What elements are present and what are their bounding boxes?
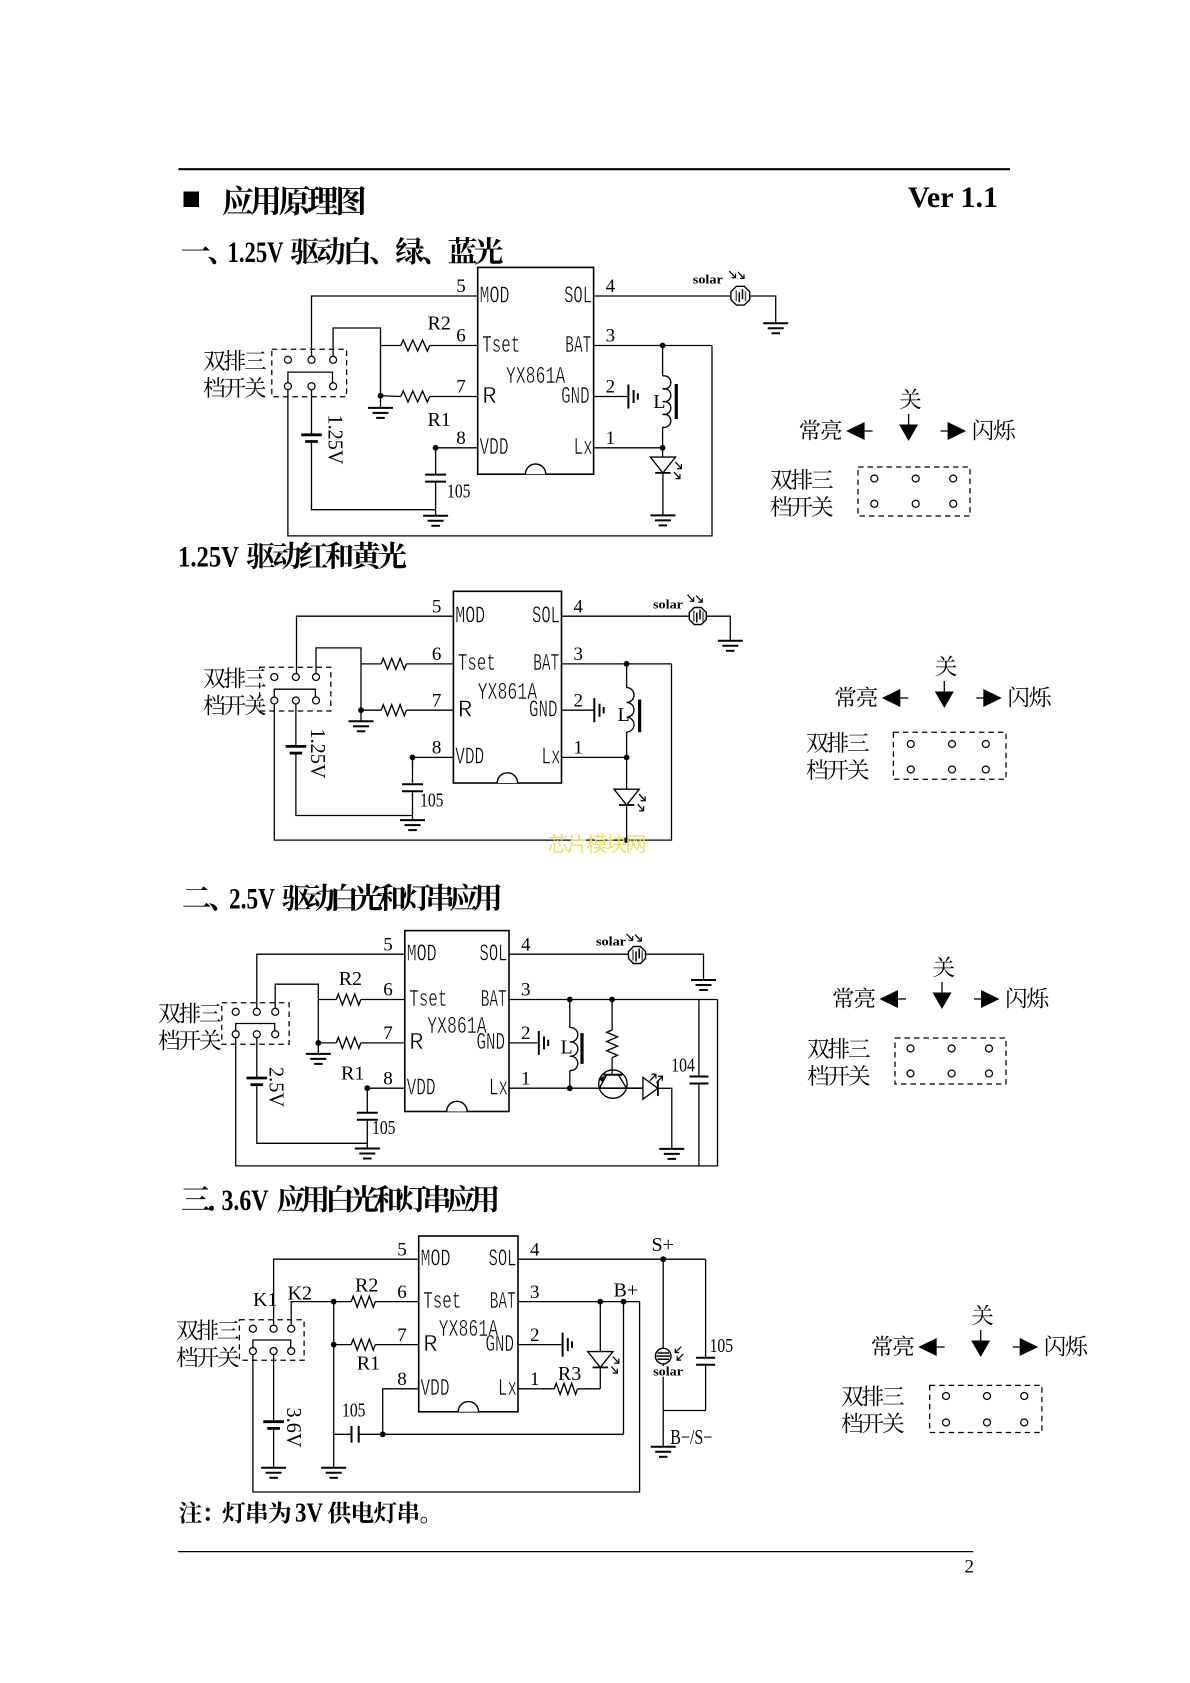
IC pin-1 orientation notch bbox=[447, 1101, 467, 1111]
wire right arrow tail bbox=[976, 697, 984, 699]
wire GND pin2 bbox=[594, 396, 628, 398]
wire MOD pin5 to switch (c4) bbox=[274, 1259, 419, 1325]
wire battery - to C1 ground node bbox=[312, 443, 436, 510]
note: light string is 3V powered bbox=[179, 1501, 210, 1523]
label: double-row three-position switch bbox=[204, 350, 266, 371]
wire BAT to inductor bbox=[662, 346, 664, 377]
wire R2 to Tset pin6 bbox=[430, 345, 478, 347]
IC pin-1 orientation notch bbox=[497, 773, 517, 783]
label battery voltage 3.6V (c4) bbox=[282, 1408, 306, 1448]
transistor Q1 (light-string driver) bbox=[599, 1070, 627, 1098]
svg-text:VDD: VDD bbox=[480, 435, 509, 462]
wire LED cathode to ground (c3) bbox=[658, 1088, 672, 1148]
wire stem down-arrow bbox=[980, 1330, 982, 1341]
label solar (c4) bbox=[653, 1366, 693, 1377]
wire VDD pin8 net (c3) bbox=[367, 1087, 405, 1089]
junction S+ node bbox=[660, 1256, 666, 1262]
wire VDD pin8 net bbox=[436, 447, 478, 449]
arrowhead down (off position) bbox=[899, 425, 918, 442]
svg-text:Tset: Tset bbox=[482, 333, 520, 360]
svg-text:Tset: Tset bbox=[423, 1289, 461, 1316]
section 2 heading bbox=[183, 886, 217, 911]
light arrow into solar (c4) 2 bbox=[677, 1354, 683, 1360]
resistor R2 bbox=[401, 340, 430, 351]
svg-text:YX861A: YX861A bbox=[506, 364, 566, 391]
capacitor C1 105 bbox=[425, 475, 446, 482]
resistor R2 (c3) bbox=[336, 994, 361, 1005]
label: double-row three-position switch (mode diagram 1) bbox=[771, 469, 833, 490]
resistor R1 (c4) bbox=[351, 1339, 375, 1350]
junction node (c2) bbox=[358, 707, 364, 713]
svg-text:2.5V: 2.5V bbox=[265, 1067, 289, 1107]
wire MOD pin5 to switch (c2) bbox=[297, 616, 454, 673]
wire capacitor down (c4) bbox=[705, 1365, 707, 1411]
wire battery return loop (c4) bbox=[253, 1302, 640, 1492]
wire VDD node to BAT branch (c4) bbox=[383, 1433, 624, 1435]
svg-text:1: 1 bbox=[574, 738, 584, 759]
solar cell PV1 bbox=[731, 286, 750, 305]
text flashing (shanshuo) bbox=[1046, 1335, 1087, 1356]
svg-text:SOL: SOL bbox=[480, 942, 508, 969]
wire BAT to LED anode (c4) bbox=[599, 1302, 601, 1352]
wire switch to battery + (c3) bbox=[256, 1038, 258, 1077]
svg-text:Lx: Lx bbox=[498, 1376, 517, 1403]
wire capacitor to ground (c3) bbox=[366, 1120, 368, 1149]
header title: application schematic bbox=[223, 186, 365, 216]
light arrow into solar (c4) 1 bbox=[675, 1347, 681, 1353]
inductor L1 bbox=[663, 376, 671, 428]
svg-text:3: 3 bbox=[574, 644, 584, 665]
wire stem down-arrow bbox=[908, 414, 910, 425]
wire resistor to transistor (c3) bbox=[611, 1058, 613, 1075]
label battery voltage 1.25V (c2) bbox=[306, 729, 330, 779]
ground B-/S- bbox=[651, 1447, 676, 1457]
wire solar to ground (c3) bbox=[646, 954, 703, 980]
ground (LED c3) bbox=[659, 1149, 684, 1159]
svg-text:YX861A: YX861A bbox=[427, 1014, 487, 1041]
svg-text:2.5V: 2.5V bbox=[229, 883, 275, 916]
resistor (R, c2) bbox=[381, 705, 406, 716]
label: double-row three-position switch (c2) bbox=[204, 668, 266, 689]
svg-text:Lx: Lx bbox=[574, 435, 593, 462]
svg-text:L: L bbox=[653, 391, 665, 413]
wire inductor to Lx bbox=[662, 427, 664, 448]
svg-text:1: 1 bbox=[521, 1068, 531, 1089]
svg-text:R1: R1 bbox=[341, 1063, 364, 1085]
svg-text:105: 105 bbox=[420, 790, 444, 812]
wire GND pin2 (c4) bbox=[518, 1344, 561, 1346]
svg-text:6: 6 bbox=[432, 644, 442, 665]
svg-text:VDD: VDD bbox=[407, 1076, 436, 1103]
text flashing (shanshuo) bbox=[1010, 686, 1051, 707]
arrowhead right (flash mode) bbox=[983, 689, 1002, 707]
svg-text:R: R bbox=[482, 384, 496, 411]
capacitor 105 (right, c4) bbox=[696, 1358, 715, 1365]
ground (IC GND pin c3) bbox=[539, 1031, 548, 1055]
wire VDD to capacitor C1 bbox=[435, 448, 437, 475]
svg-text:R2: R2 bbox=[339, 968, 362, 990]
text OFF (guan) bbox=[900, 389, 921, 410]
label battery voltage 2.5V (c3) bbox=[265, 1067, 289, 1107]
wire jumper bottom contacts (c4) bbox=[253, 1340, 291, 1348]
svg-text:8: 8 bbox=[456, 428, 466, 449]
svg-text:2: 2 bbox=[965, 1556, 975, 1577]
inductor L2 bbox=[627, 688, 634, 732]
svg-text:MOD: MOD bbox=[480, 283, 510, 310]
arrowhead left (steady mode) bbox=[918, 1338, 937, 1356]
junction VDD node (c3) bbox=[364, 1085, 370, 1091]
wire R1 to R pin7 bbox=[430, 396, 478, 398]
text steady-on (changliang) bbox=[833, 987, 875, 1008]
svg-text:1.25V: 1.25V bbox=[306, 729, 330, 779]
wire LED cathode to ground bbox=[662, 473, 664, 515]
wire jumper bottom contacts (c3) bbox=[236, 1024, 275, 1031]
wire jumper bottom-left to bottom-right switch contact bbox=[288, 372, 333, 383]
wire capacitor to ground (c2) bbox=[412, 791, 414, 820]
wire stem down-arrow bbox=[943, 681, 945, 692]
wire VDD to capacitor (c2) bbox=[412, 757, 414, 784]
wire battery return loop (c2) bbox=[274, 664, 671, 840]
light arrow (c3) 1 bbox=[627, 934, 633, 941]
svg-text:Lx: Lx bbox=[489, 1076, 508, 1103]
wire switch K2 to Tset node (c4) bbox=[291, 1302, 334, 1325]
svg-text:MOD: MOD bbox=[421, 1247, 451, 1274]
svg-text:2: 2 bbox=[530, 1325, 540, 1346]
wire LED cathode to R3 (c4) bbox=[599, 1367, 601, 1388]
switch position diagram S2 bbox=[893, 732, 1006, 779]
battery BT3 2.5V bbox=[247, 1077, 268, 1080]
svg-text:B+: B+ bbox=[614, 1280, 639, 1302]
wire R1 to R pin7 (c3) bbox=[361, 1042, 405, 1044]
wire node to Tset resistor (c2) bbox=[361, 663, 381, 665]
svg-text:3: 3 bbox=[606, 326, 616, 347]
svg-text:R: R bbox=[458, 698, 472, 725]
wire battery return loop (c3) bbox=[236, 1000, 718, 1166]
label: double-row three-position switch (c3) bbox=[159, 1003, 221, 1024]
svg-text:2: 2 bbox=[574, 690, 584, 711]
capacitor 105 (c2) bbox=[402, 784, 423, 791]
arrowhead down (off position) bbox=[933, 993, 952, 1010]
battery BT4 3.6V bbox=[263, 1420, 284, 1423]
wire battery - to ground (c4) bbox=[273, 1430, 275, 1468]
svg-text:5: 5 bbox=[456, 276, 466, 297]
resistor R3 bbox=[554, 1383, 577, 1394]
svg-text:solar: solar bbox=[693, 273, 724, 287]
ground (IC GND pin c2) bbox=[594, 698, 603, 722]
svg-text:3: 3 bbox=[521, 980, 531, 1001]
inductor L3 bbox=[570, 1028, 578, 1071]
wire battery - to ground node (c3) bbox=[257, 1086, 368, 1143]
IC pin-1 orientation notch bbox=[525, 464, 545, 474]
svg-text:solar: solar bbox=[596, 935, 627, 949]
svg-text:Ver 1.1: Ver 1.1 bbox=[908, 181, 998, 214]
wire battery return loop bbox=[288, 346, 712, 536]
svg-text:R: R bbox=[423, 1332, 437, 1359]
svg-text:5: 5 bbox=[383, 934, 393, 955]
wire Tset node down to R node (c4) bbox=[333, 1302, 335, 1345]
svg-text:B−/S−: B−/S− bbox=[670, 1425, 712, 1449]
junction node R/ground bbox=[378, 393, 384, 399]
wire node to R2 (c4) bbox=[334, 1301, 352, 1303]
junction VDD node bbox=[433, 445, 439, 451]
label: double-row three-position switch (c4) bbox=[177, 1320, 239, 1341]
svg-text:2: 2 bbox=[606, 377, 616, 398]
arrowhead left (steady mode) bbox=[846, 422, 865, 440]
op-amp U4 YX861A (circuit 4) bbox=[419, 1236, 518, 1412]
svg-text:3.6V: 3.6V bbox=[222, 1184, 269, 1217]
IC pin-1 orientation notch bbox=[458, 1402, 478, 1412]
svg-text:solar: solar bbox=[653, 598, 684, 612]
svg-text:VDD: VDD bbox=[455, 745, 484, 772]
LED D3 (light string) bbox=[643, 1077, 658, 1099]
svg-text:SOL: SOL bbox=[532, 604, 560, 631]
wire Lx to LED anode bbox=[662, 448, 664, 457]
wire node to ground (c3) bbox=[317, 1043, 319, 1054]
LED D1 bbox=[650, 457, 675, 473]
arrowhead left (steady mode) bbox=[882, 689, 901, 707]
ground (solar c2) bbox=[718, 641, 743, 651]
wire BAT pin3 net bbox=[594, 345, 712, 347]
LED D4 bbox=[588, 1352, 613, 1368]
resistor (base, c3) bbox=[607, 1030, 618, 1058]
wire node to R2 bbox=[381, 345, 401, 347]
wire SOL pin4 to solar (c3) bbox=[509, 953, 628, 955]
wire cap right plate to VDD node (c4) bbox=[359, 1433, 383, 1435]
svg-text:3V: 3V bbox=[295, 1498, 323, 1528]
wire node to R1 bbox=[381, 395, 401, 398]
wire S+ to capacitor 105 (c4) bbox=[705, 1259, 707, 1358]
svg-text:1: 1 bbox=[606, 428, 616, 449]
label: double-row three-position switch (mode diagram 3) bbox=[808, 1038, 870, 1059]
svg-text:K1: K1 bbox=[253, 1289, 277, 1311]
svg-text:1.25V: 1.25V bbox=[178, 541, 239, 574]
capacitor 104 bbox=[689, 1077, 708, 1084]
battery BT2 1.25V bbox=[286, 745, 307, 748]
solar cell PV3 bbox=[629, 947, 646, 964]
ground (battery c4) bbox=[261, 1468, 286, 1478]
svg-text:1: 1 bbox=[530, 1369, 540, 1390]
wire switch to battery + bbox=[311, 390, 313, 434]
double-row 3-position switch S3 bbox=[222, 1003, 289, 1044]
ground (solar) bbox=[763, 323, 788, 333]
svg-text:R3: R3 bbox=[558, 1363, 581, 1385]
junction VDD node (c4) bbox=[380, 1431, 386, 1437]
ground (IC GND pin c4) bbox=[563, 1333, 572, 1357]
wire solar to ground bbox=[750, 296, 775, 323]
solar cell PV2 bbox=[689, 608, 706, 625]
junction BAT/LED (c4) bbox=[597, 1299, 603, 1305]
light arrow (c2) 2 bbox=[696, 596, 702, 603]
wire BAT to capacitor 104 bbox=[698, 1000, 700, 1077]
wire Lx pin1 net (c3) bbox=[509, 1087, 599, 1089]
junction Lx/LED bbox=[660, 445, 666, 451]
ground (VDD cap c3) bbox=[355, 1149, 380, 1159]
resistor R1 (c3) bbox=[336, 1037, 361, 1048]
svg-text:R: R bbox=[409, 1030, 423, 1057]
svg-text:105: 105 bbox=[342, 1400, 366, 1422]
svg-text:L: L bbox=[561, 1036, 573, 1058]
svg-text:GND: GND bbox=[561, 384, 590, 411]
wire capacitor 104 to bottom rail bbox=[698, 1084, 700, 1166]
arrowhead right (flash mode) bbox=[1020, 1338, 1038, 1356]
header bullet square bbox=[184, 192, 200, 208]
battery BT1 1.25V bbox=[301, 433, 322, 436]
wire Lx to LED anode (c2) bbox=[626, 757, 628, 789]
resistor (Tset, c2) bbox=[381, 658, 406, 669]
label: double-row three-position switch (mode diagram 2) bbox=[807, 732, 869, 753]
svg-text:L: L bbox=[618, 704, 630, 726]
wire VDD pin8 down to node (c4) bbox=[383, 1389, 419, 1435]
wire node to ground bbox=[380, 396, 382, 408]
wire right arrow tail bbox=[1013, 1346, 1021, 1348]
light arrow into solar 2 bbox=[738, 272, 744, 279]
text OFF (guan) bbox=[972, 1305, 993, 1326]
wire Lx pin1 to R3 (c4) bbox=[518, 1388, 554, 1390]
wire to cap left plate (c4) bbox=[334, 1433, 352, 1435]
svg-text:8: 8 bbox=[432, 738, 442, 759]
wire solar to ground (c2) bbox=[707, 616, 730, 640]
svg-text:R2: R2 bbox=[428, 313, 451, 335]
wire R2 to Tset pin6 (c3) bbox=[361, 999, 405, 1001]
footer rule bbox=[178, 1551, 973, 1553]
wire BAT to inductor (c3) bbox=[569, 1000, 571, 1028]
light arrow into solar 1 bbox=[729, 271, 735, 278]
wire resistor to R pin7 (c2) bbox=[406, 709, 453, 711]
svg-text:4: 4 bbox=[530, 1239, 540, 1260]
section 3 heading bbox=[182, 1186, 214, 1211]
svg-text:3: 3 bbox=[530, 1282, 540, 1303]
wire capacitor to solar branch (c4) bbox=[663, 1410, 705, 1412]
wire jumper bottom contacts (c2) bbox=[274, 689, 315, 697]
header top rule bbox=[179, 168, 1011, 170]
wire SOL pin4 to S+ (c4) bbox=[518, 1258, 706, 1260]
wire VDD to capacitor (c3) bbox=[366, 1088, 368, 1113]
svg-text:7: 7 bbox=[456, 377, 466, 398]
wire resistor to Tset pin6 (c2) bbox=[406, 663, 453, 665]
svg-text:Tset: Tset bbox=[409, 987, 447, 1014]
svg-text:1.25V: 1.25V bbox=[324, 415, 348, 465]
svg-text:105: 105 bbox=[372, 1117, 396, 1139]
svg-text:YX861A: YX861A bbox=[439, 1317, 499, 1344]
svg-text:104: 104 bbox=[671, 1054, 695, 1076]
wire S+ down to solar (c4) bbox=[662, 1259, 664, 1348]
text OFF (guan) bbox=[933, 957, 954, 978]
svg-text:BAT: BAT bbox=[490, 1289, 516, 1316]
wire LED cathode to bottom rail (c2) bbox=[626, 805, 628, 840]
svg-text:YX861A: YX861A bbox=[478, 680, 538, 707]
wire node down to cap 105 (c4) bbox=[333, 1345, 335, 1435]
svg-text:BAT: BAT bbox=[481, 987, 507, 1014]
wire inductor to Lx (c2) bbox=[626, 732, 628, 758]
svg-text:Lx: Lx bbox=[542, 745, 561, 772]
svg-text:R1: R1 bbox=[428, 409, 451, 431]
wire MOD pin5 to switch bbox=[312, 296, 478, 356]
wire VDD pin8 net (c2) bbox=[413, 756, 454, 758]
svg-text:6: 6 bbox=[397, 1282, 407, 1303]
wire node to R1 (c3) bbox=[318, 1042, 336, 1044]
wire Lx pin1 net bbox=[594, 447, 663, 449]
wire BAT pin3 net (c2) bbox=[562, 663, 672, 665]
wire left arrow tail bbox=[900, 697, 908, 699]
svg-text:4: 4 bbox=[606, 276, 616, 297]
arrowhead right (flash mode) bbox=[948, 422, 967, 440]
wire node to R2 (c3) bbox=[318, 999, 336, 1001]
svg-text:6: 6 bbox=[456, 326, 466, 347]
wire BAT to inductor (c2) bbox=[626, 664, 628, 688]
svg-text:5: 5 bbox=[397, 1239, 407, 1260]
junction BAT/inductor bbox=[660, 343, 666, 349]
ground (VDD cap c2) bbox=[400, 820, 425, 830]
wire R1 to R pin7 (c4) bbox=[375, 1344, 418, 1346]
junction Tset node (c4) bbox=[331, 1299, 337, 1305]
wire up to BAT net (c4) bbox=[623, 1302, 625, 1435]
wire left arrow tail bbox=[937, 1346, 945, 1348]
ground (divider c2) bbox=[349, 721, 374, 731]
resistor R2 (c4) bbox=[351, 1296, 375, 1307]
svg-text:105: 105 bbox=[710, 1335, 734, 1357]
svg-text:VDD: VDD bbox=[421, 1376, 450, 1403]
wire battery - to ground node (c2) bbox=[296, 754, 413, 815]
wire left arrow tail bbox=[865, 430, 873, 432]
svg-text:R1: R1 bbox=[357, 1353, 380, 1375]
wire SOL pin4 to solar cell bbox=[594, 295, 731, 297]
junction Lx/LED (c2) bbox=[624, 755, 630, 761]
double-row 3-position switch S4 bbox=[239, 1320, 304, 1361]
svg-text:7: 7 bbox=[383, 1023, 393, 1044]
wire transistor emitter to LED (c3) bbox=[599, 1087, 643, 1089]
wire switch K2 to R-divider node bbox=[333, 328, 380, 396]
capacitor 105 (vertical plates, c4) bbox=[352, 1426, 359, 1443]
text steady-on (changliang) bbox=[836, 686, 878, 707]
op-amp U1 YX861A (circuit 1) bbox=[478, 267, 594, 474]
svg-text:solar: solar bbox=[653, 1365, 684, 1379]
arrowhead down (off position) bbox=[971, 1341, 990, 1358]
section 1 heading bbox=[182, 246, 216, 264]
LED D2 bbox=[614, 789, 639, 805]
wire switch to battery + (c2) bbox=[295, 704, 297, 746]
junction node (c3) bbox=[315, 1040, 321, 1046]
wire switch to divider node (c3) bbox=[275, 984, 318, 1043]
text steady-on (changliang) bbox=[800, 419, 842, 440]
svg-text:BAT: BAT bbox=[565, 333, 591, 360]
text OFF (guan) bbox=[936, 656, 957, 677]
wire BAT to base resistor (c3) bbox=[611, 1000, 613, 1031]
watermark chip module website (yellow) bbox=[548, 834, 644, 853]
capacitor 105 (c3) bbox=[357, 1113, 378, 1120]
solar cell PV4 (circle with horizontal plates) bbox=[655, 1348, 671, 1364]
junction BAT/VDD branch (c4) bbox=[621, 1299, 627, 1305]
double-row 3-position switch S1 bbox=[272, 349, 347, 396]
wire solar to B-/S- ground (c4) bbox=[662, 1364, 664, 1447]
wire R3 to LED branch (c4) bbox=[578, 1388, 601, 1390]
label battery voltage 1.25V bbox=[324, 415, 348, 465]
wire switch to divider node (c2) bbox=[316, 648, 361, 710]
svg-text:1.25V: 1.25V bbox=[228, 236, 284, 269]
label: double-row three-position switch (mode diagram 4) bbox=[842, 1386, 904, 1407]
wire SOL pin4 to solar (c2) bbox=[562, 615, 689, 617]
svg-text:SOL: SOL bbox=[489, 1247, 517, 1274]
svg-text:4: 4 bbox=[574, 596, 584, 617]
junction LED/bottom rail (c2) bbox=[624, 837, 630, 843]
svg-text:6: 6 bbox=[383, 980, 393, 1001]
junction R node (c4) bbox=[331, 1342, 337, 1348]
ground (LED) bbox=[650, 515, 675, 525]
wire BAT pin3 net (c3) bbox=[509, 999, 718, 1001]
svg-text:105: 105 bbox=[447, 481, 471, 503]
switch position diagram S1 bbox=[858, 467, 970, 516]
junction VDD node (c2) bbox=[410, 755, 416, 761]
wire left arrow tail bbox=[898, 998, 906, 1000]
